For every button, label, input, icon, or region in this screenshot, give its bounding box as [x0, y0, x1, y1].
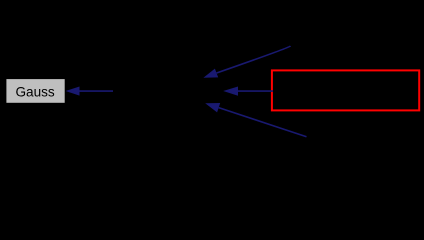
svg-text:Gauss: Gauss	[15, 84, 54, 99]
